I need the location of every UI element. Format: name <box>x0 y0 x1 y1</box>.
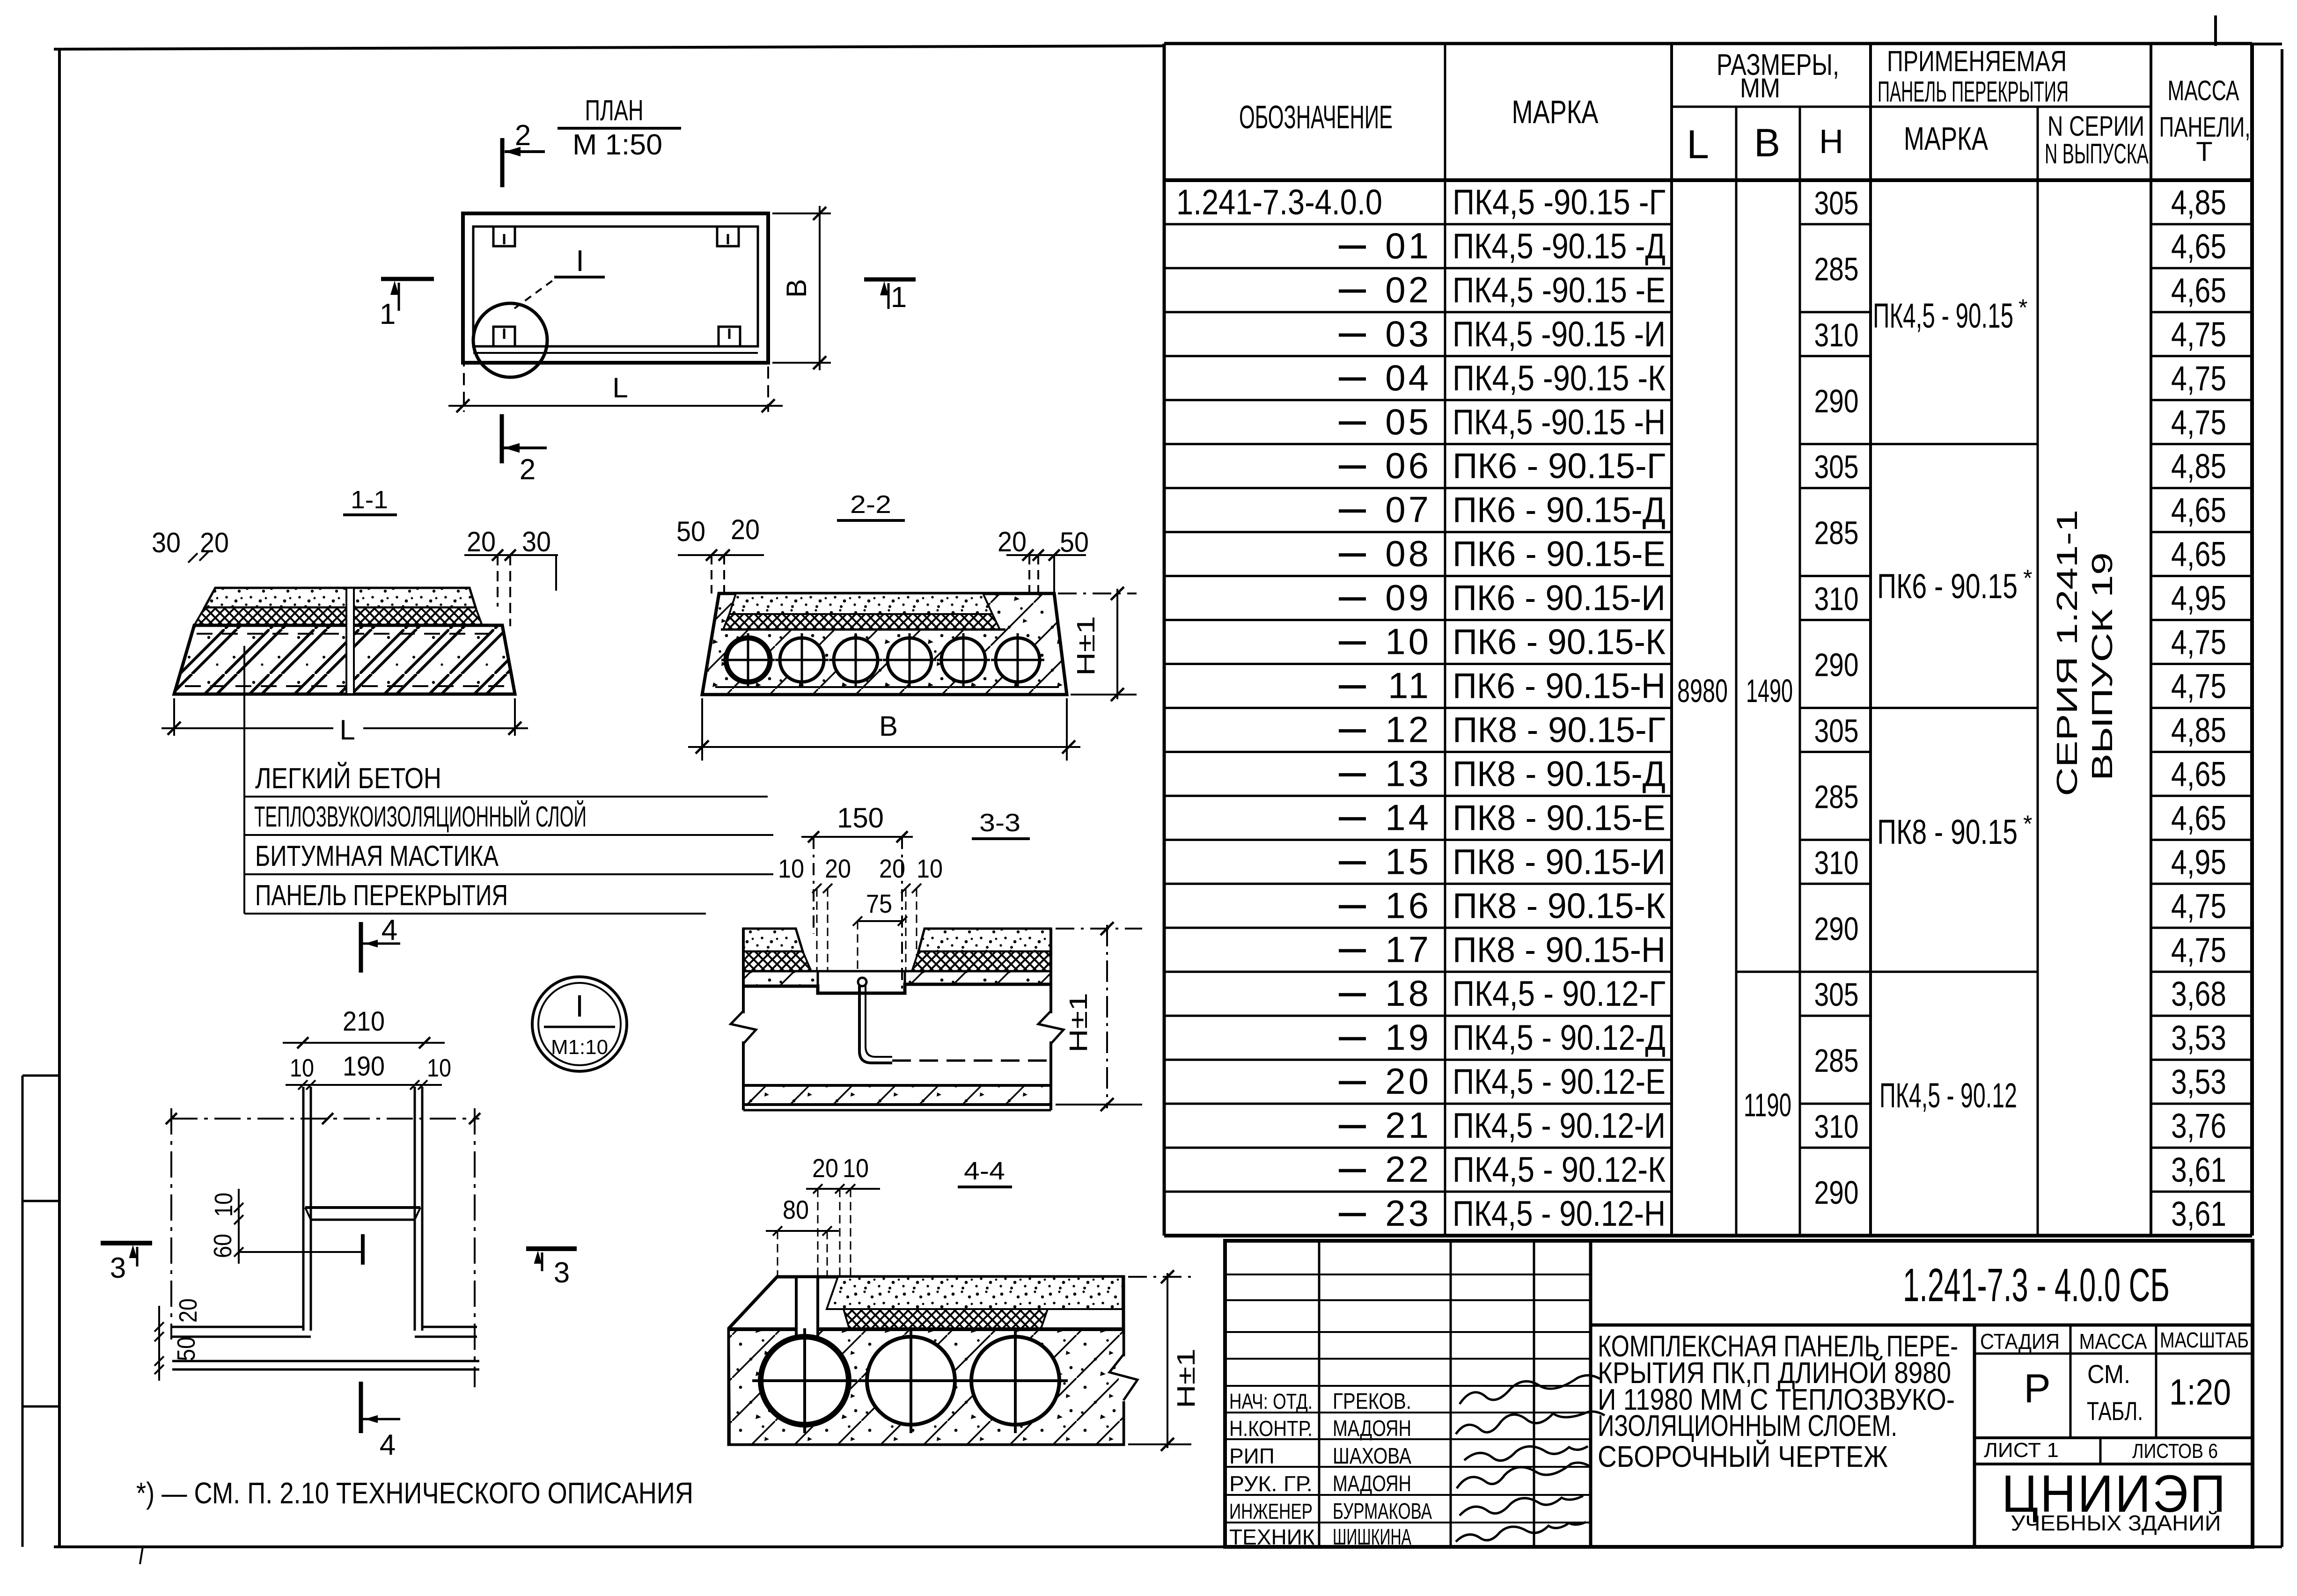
section 3-3 left edge with break <box>742 929 745 1110</box>
svg-text:ВЫПУСК 19: ВЫПУСК 19 <box>2086 552 2119 781</box>
svg-text:ТЕХНИК: ТЕХНИК <box>1229 1525 1315 1549</box>
section 3-3 panel top band right <box>905 971 1051 984</box>
plan notch top-right <box>717 227 739 246</box>
svg-text:19: 19 <box>1385 1017 1431 1058</box>
svg-text:ПК6 - 90.15: ПК6 - 90.15 <box>1877 567 2018 606</box>
svg-text:310: 310 <box>1814 581 1859 617</box>
svg-text:ПК4,5 -90.15 -К: ПК4,5 -90.15 -К <box>1453 359 1666 398</box>
svg-text:ПК4,5 - 90.12-Е: ПК4,5 - 90.12-Е <box>1453 1062 1666 1102</box>
svg-text:4,75: 4,75 <box>2171 403 2226 442</box>
plan section marker 2 bottom <box>500 414 504 463</box>
svg-text:3: 3 <box>554 1257 570 1289</box>
svg-text:01: 01 <box>1385 225 1431 266</box>
svg-text:ОБОЗНАЧЕНИЕ: ОБОЗНАЧЕНИЕ <box>1239 99 1393 135</box>
svg-text:310: 310 <box>1814 317 1859 353</box>
svg-text:10: 10 <box>427 1054 451 1082</box>
svg-text:310: 310 <box>1814 1108 1859 1145</box>
detail I section marker 3 left <box>101 1241 152 1245</box>
detail I panel edge upper double line <box>172 1326 303 1328</box>
detail I section marker 3 right <box>526 1246 577 1251</box>
svg-text:В: В <box>781 279 812 298</box>
svg-text:285: 285 <box>1814 778 1859 815</box>
detail I scale bubble <box>532 977 627 1071</box>
detail I dims 10 60 left stack <box>238 1189 240 1264</box>
svg-text:4,75: 4,75 <box>2171 315 2226 354</box>
svg-text:60: 60 <box>209 1234 237 1258</box>
svg-text:ПК4,5 -90.15 -Е: ПК4,5 -90.15 -Е <box>1453 271 1666 310</box>
table outer border and verticals <box>1164 42 2252 45</box>
title block stage rows <box>1974 1353 2253 1355</box>
svg-text:305: 305 <box>1814 976 1859 1013</box>
svg-text:4,65: 4,65 <box>2171 227 2226 266</box>
svg-text:3: 3 <box>110 1252 126 1284</box>
svg-text:12: 12 <box>1385 709 1431 750</box>
section 4-4 edge groove <box>797 1278 817 1338</box>
svg-text:4,95: 4,95 <box>2171 579 2226 618</box>
plan section marker 1 left <box>381 277 434 281</box>
svg-text:НАЧ: ОТД.: НАЧ: ОТД. <box>1229 1389 1313 1413</box>
section 3-3 left block stipple <box>743 929 803 952</box>
svg-text:285: 285 <box>1814 1042 1859 1079</box>
table H column merged cell lines <box>1800 223 1871 226</box>
svg-text:N СЕРИИ: N СЕРИИ <box>2047 110 2144 142</box>
svg-text:4,65: 4,65 <box>2171 754 2226 793</box>
svg-text:СТАДИЯ: СТАДИЯ <box>1980 1329 2060 1354</box>
svg-text:02: 02 <box>1385 269 1431 310</box>
svg-text:10: 10 <box>778 854 804 883</box>
signature table rows <box>1225 1274 1591 1275</box>
svg-text:190: 190 <box>343 1051 385 1082</box>
plan section marker 1 right <box>864 278 916 282</box>
detail I axis dash-dot lines <box>171 1118 479 1120</box>
svg-text:ПК8 - 90.15-Д: ПК8 - 90.15-Д <box>1453 754 1666 794</box>
svg-text:20: 20 <box>825 854 851 883</box>
svg-text:ПК8 - 90.15-К: ПК8 - 90.15-К <box>1453 886 1666 926</box>
svg-text:ИЗОЛЯЦИОННЫМ СЛОЕМ.: ИЗОЛЯЦИОННЫМ СЛОЕМ. <box>1598 1409 1897 1442</box>
section 4-4 panel top heavy line <box>729 1327 1123 1331</box>
svg-text:I: I <box>576 244 584 278</box>
plan section marker 2 top <box>500 138 505 187</box>
signature table columns <box>1318 1241 1321 1547</box>
svg-text:ПК4,5 - 90.12-И: ПК4,5 - 90.12-И <box>1453 1106 1666 1146</box>
svg-text:4,75: 4,75 <box>2171 886 2226 925</box>
svg-text:05: 05 <box>1385 401 1431 442</box>
section 4-4 H dimension <box>1128 1276 1191 1278</box>
svg-text:ПК4,5 -90.15 -Н: ПК4,5 -90.15 -Н <box>1453 403 1666 442</box>
section 4-4 concrete area <box>730 1330 1123 1443</box>
svg-text:20: 20 <box>1385 1061 1431 1102</box>
svg-text:20: 20 <box>467 526 496 557</box>
plan panel outer rectangle <box>463 213 768 363</box>
svg-text:МАДОЯН: МАДОЯН <box>1333 1472 1411 1496</box>
svg-text:БУРМАКОВА: БУРМАКОВА <box>1333 1499 1432 1524</box>
svg-text:ТЕПЛОЗВУКОИЗОЛЯЦИОННЫЙ СЛОЙ: ТЕПЛОЗВУКОИЗОЛЯЦИОННЫЙ СЛОЙ <box>254 800 587 833</box>
svg-text:ЛИСТ 1: ЛИСТ 1 <box>1984 1439 2059 1462</box>
svg-text:3-3: 3-3 <box>979 809 1020 837</box>
frame fold mark top right <box>2214 15 2217 46</box>
svg-text:1190: 1190 <box>1744 1087 1791 1123</box>
section 3-3 right block crosshatch <box>912 952 1051 971</box>
section 1-1 material legend leader <box>243 646 245 914</box>
svg-text:75: 75 <box>866 889 892 918</box>
section 3-3 left block crosshatch <box>743 952 811 971</box>
left margin blocks <box>22 1076 24 1547</box>
svg-text:ПК8 - 90.15-Е: ПК8 - 90.15-Е <box>1453 798 1666 838</box>
table row lines масса column <box>2151 223 2252 226</box>
svg-text:4,75: 4,75 <box>2171 623 2226 662</box>
svg-text:ШИШКИНА: ШИШКИНА <box>1333 1525 1411 1550</box>
section 2-2 crosshatch band <box>723 614 1000 630</box>
svg-text:18: 18 <box>1385 973 1431 1014</box>
section 3-3 joint recess outline <box>743 984 1051 993</box>
svg-text:РУК. ГР.: РУК. ГР. <box>1229 1472 1313 1496</box>
section 2-2 top stipple band <box>729 593 992 614</box>
section 4-4 right edge break <box>1119 1356 1128 1401</box>
svg-text:ПК6 - 90.15-Д: ПК6 - 90.15-Д <box>1453 491 1666 530</box>
svg-text:1-1: 1-1 <box>351 486 388 514</box>
svg-text:4,65: 4,65 <box>2171 535 2226 574</box>
section 1-1 dashed line inside slab bottom <box>185 685 509 687</box>
svg-text:07: 07 <box>1385 489 1431 530</box>
svg-text:*: * <box>2023 811 2032 837</box>
svg-text:210: 210 <box>343 1006 385 1037</box>
section 2-2 hollow core circles <box>726 638 770 682</box>
plan notch bottom-right <box>719 327 740 346</box>
section 4-4 stipple band <box>827 1277 1123 1309</box>
svg-text:ПАНЕЛЬ ПЕРЕКРЫТИЯ: ПАНЕЛЬ ПЕРЕКРЫТИЯ <box>255 879 508 912</box>
svg-text:ПК8 - 90.15: ПК8 - 90.15 <box>1877 813 2018 851</box>
svg-text:ПК6 - 90.15-Г: ПК6 - 90.15-Г <box>1453 447 1666 486</box>
detail I groove inner bar <box>305 1206 420 1209</box>
svg-text:М 1:50: М 1:50 <box>572 129 662 161</box>
svg-text:1.241-7.3-4.0.0: 1.241-7.3-4.0.0 <box>1176 183 1382 222</box>
svg-text:МАССА: МАССА <box>2168 75 2239 106</box>
section 3-3 panel top band left <box>743 971 818 986</box>
svg-text:20: 20 <box>879 854 905 883</box>
svg-text:L: L <box>1687 122 1709 167</box>
svg-text:Н±1: Н±1 <box>1172 1348 1200 1408</box>
detail I groove side lines right pair <box>414 1087 416 1331</box>
svg-text:4: 4 <box>382 914 397 946</box>
section 1-1 break lines <box>346 589 354 693</box>
svg-text:4,85: 4,85 <box>2171 183 2226 222</box>
svg-text:04: 04 <box>1385 357 1431 398</box>
svg-text:ММ: ММ <box>1740 73 1780 103</box>
title block outer border <box>1225 1241 2253 1547</box>
svg-text:80: 80 <box>783 1195 809 1224</box>
svg-text:СЕРИЯ 1.241-1: СЕРИЯ 1.241-1 <box>2051 510 2084 796</box>
section 3-3 bottom slab band <box>743 1085 1051 1105</box>
svg-text:МАДОЯН: МАДОЯН <box>1333 1416 1411 1441</box>
svg-text:СМ.: СМ. <box>2087 1359 2130 1389</box>
svg-text:ПК8 - 90.15-И: ПК8 - 90.15-И <box>1453 842 1666 882</box>
signatures scribbles <box>1460 1375 1600 1404</box>
svg-text:22: 22 <box>1385 1149 1431 1190</box>
svg-text:Н±1: Н±1 <box>1072 616 1100 676</box>
svg-text:1: 1 <box>891 281 907 314</box>
svg-text:Н: Н <box>1819 123 1843 161</box>
svg-text:10: 10 <box>843 1153 869 1183</box>
title block main dividers <box>1589 1241 1592 1547</box>
svg-text:М1:10: М1:10 <box>551 1036 608 1059</box>
svg-text:ПК4,5 - 90.15: ПК4,5 - 90.15 <box>1873 296 2013 335</box>
svg-text:ПК6 - 90.15-Е: ПК6 - 90.15-Е <box>1453 534 1666 574</box>
svg-text:1490: 1490 <box>1746 673 1793 709</box>
svg-text:3,61: 3,61 <box>2171 1150 2226 1189</box>
detail I section marker 4 top <box>359 922 363 973</box>
svg-text:I: I <box>575 988 584 1023</box>
svg-text:В: В <box>879 710 898 742</box>
svg-text:11: 11 <box>1388 665 1431 706</box>
svg-text:150: 150 <box>837 802 884 834</box>
svg-text:50: 50 <box>172 1337 200 1361</box>
section 3-3 H dimension <box>1056 928 1142 930</box>
svg-text:ПК4,5 - 90.12-К: ПК4,5 - 90.12-К <box>1453 1150 1666 1190</box>
section 3-3 right edge with break <box>1049 929 1052 1110</box>
svg-text:10: 10 <box>917 854 943 883</box>
svg-text:4-4: 4-4 <box>964 1157 1005 1185</box>
svg-text:ПК6 - 90.15-Н: ПК6 - 90.15-Н <box>1453 666 1666 706</box>
svg-text:21: 21 <box>1385 1105 1431 1146</box>
svg-text:09: 09 <box>1385 577 1431 618</box>
section 2-2 B dimension bottom <box>701 698 703 761</box>
svg-text:1: 1 <box>380 298 396 330</box>
svg-text:МАРКА: МАРКА <box>1512 94 1599 130</box>
section 3-3 bottom edge line <box>743 1109 1051 1112</box>
svg-text:УЧЕБНЫХ ЗДАНИЙ: УЧЕБНЫХ ЗДАНИЙ <box>2011 1511 2221 1535</box>
svg-text:23: 23 <box>1385 1193 1431 1234</box>
svg-text:285: 285 <box>1814 515 1859 551</box>
table row lines обозначение and марка columns <box>1164 223 1672 226</box>
svg-text:4,85: 4,85 <box>2171 447 2226 486</box>
svg-text:285: 285 <box>1814 251 1859 287</box>
svg-text:ПК6 - 90.15-И: ПК6 - 90.15-И <box>1453 578 1666 618</box>
frame fold mark bottom left <box>140 1547 143 1564</box>
svg-text:20: 20 <box>200 527 229 558</box>
section 4-4 panel body outline <box>729 1277 1123 1444</box>
svg-text:10: 10 <box>210 1193 238 1217</box>
svg-text:8980: 8980 <box>1677 673 1728 709</box>
svg-text:4,65: 4,65 <box>2171 798 2226 837</box>
section 1-1 top stipple band <box>205 588 476 608</box>
table group separator lines <box>1800 443 2038 445</box>
svg-text:*: * <box>2023 565 2032 591</box>
svg-text:290: 290 <box>1814 910 1859 947</box>
plan panel inner extra bottom line <box>473 352 758 354</box>
plan detail leader line <box>514 280 553 308</box>
svg-text:ПК4,5 - 90.12-Н: ПК4,5 - 90.12-Н <box>1453 1194 1666 1234</box>
svg-text:Р: Р <box>2024 1366 2050 1411</box>
svg-text:ЛЕГКИЙ БЕТОН: ЛЕГКИЙ БЕТОН <box>255 762 441 795</box>
section 4-4 hollow core circles <box>761 1337 849 1425</box>
svg-text:20: 20 <box>174 1298 202 1323</box>
section 2-2 H dimension right <box>1058 593 1137 594</box>
svg-text:ПК4,5 -90.15 -Г: ПК4,5 -90.15 -Г <box>1453 183 1666 222</box>
svg-text:ПК4,5 - 90.12-Д: ПК4,5 - 90.12-Д <box>1453 1018 1666 1058</box>
svg-text:L: L <box>339 714 355 746</box>
svg-text:290: 290 <box>1814 383 1859 419</box>
svg-text:20: 20 <box>812 1153 838 1183</box>
plan notch bottom-left <box>493 327 515 346</box>
svg-text:50: 50 <box>676 516 705 547</box>
section 3-3 anchor pin <box>859 986 892 1063</box>
svg-text:1.241-7.3 - 4.0.0 СБ: 1.241-7.3 - 4.0.0 СБ <box>1903 1259 2170 1311</box>
svg-text:ПАНЕЛЬ ПЕРЕКРЫТИЯ: ПАНЕЛЬ ПЕРЕКРЫТИЯ <box>1878 76 2069 108</box>
svg-text:13: 13 <box>1385 753 1431 794</box>
svg-text:ПК6 - 90.15-К: ПК6 - 90.15-К <box>1453 622 1666 662</box>
svg-text:В: В <box>1754 121 1780 165</box>
svg-text:ГРЕКОВ.: ГРЕКОВ. <box>1333 1389 1411 1414</box>
svg-text:МАСШТАБ: МАСШТАБ <box>2160 1328 2249 1352</box>
svg-text:ПК4,5 -90.15 -И: ПК4,5 -90.15 -И <box>1453 315 1666 354</box>
svg-text:4,65: 4,65 <box>2171 491 2226 530</box>
plan panel inner rectangle <box>473 227 758 346</box>
svg-text:20: 20 <box>731 514 760 545</box>
svg-text:ПРИМЕНЯЕМАЯ: ПРИМЕНЯЕМАЯ <box>1887 45 2067 78</box>
sheet frame border <box>54 46 1164 49</box>
section 1-1 dashed line inside slab top <box>197 633 499 635</box>
svg-text:ЛИСТОВ 6: ЛИСТОВ 6 <box>2132 1440 2218 1463</box>
section 3-3 right block stipple <box>918 929 1051 952</box>
svg-text:Н.КОНТР.: Н.КОНТР. <box>1229 1416 1313 1441</box>
detail I groove side lines left pair <box>302 1087 305 1331</box>
svg-text:50: 50 <box>1060 527 1089 558</box>
svg-text:08: 08 <box>1385 533 1431 574</box>
plan detail I circle callout <box>473 303 547 377</box>
svg-text:3,53: 3,53 <box>2171 1062 2226 1101</box>
svg-text:3,68: 3,68 <box>2171 974 2226 1013</box>
svg-text:10: 10 <box>290 1054 314 1082</box>
section 3-3 joint top line <box>811 970 912 973</box>
svg-text:МАССА: МАССА <box>2079 1329 2147 1354</box>
plan dimension L bottom <box>463 354 465 412</box>
svg-text:305: 305 <box>1814 185 1859 221</box>
svg-text:310: 310 <box>1814 844 1859 881</box>
svg-text:L: L <box>612 372 628 403</box>
svg-text:ПК8 - 90.15-Г: ПК8 - 90.15-Г <box>1453 710 1666 750</box>
svg-text:290: 290 <box>1814 1174 1859 1211</box>
svg-text:1:20: 1:20 <box>2169 1371 2231 1413</box>
svg-text:4,65: 4,65 <box>2171 271 2226 310</box>
svg-text:РИП: РИП <box>1229 1444 1275 1468</box>
svg-text:Н±1: Н±1 <box>1064 993 1093 1053</box>
svg-text:ПК4,5 -90.15 -Д: ПК4,5 -90.15 -Д <box>1453 227 1666 266</box>
svg-text:4,85: 4,85 <box>2171 711 2226 750</box>
svg-text:4,75: 4,75 <box>2171 667 2226 706</box>
svg-text:17: 17 <box>1385 929 1431 970</box>
section 2-2 bottom flange inner line <box>715 686 1059 688</box>
svg-text:*: * <box>2018 294 2027 321</box>
section 4-4 crosshatch band <box>844 1309 1048 1328</box>
section 3-3 anchor pin loop <box>858 978 866 986</box>
section 1-1 main slab diagonal hatch <box>174 625 515 694</box>
svg-text:ПК4,5 - 90.12-Г: ПК4,5 - 90.12-Г <box>1453 974 1666 1014</box>
svg-text:ПЛАН: ПЛАН <box>585 95 644 127</box>
plan notch top-left <box>493 227 515 246</box>
svg-text:2: 2 <box>515 119 531 152</box>
detail I dims 20 50 left bottom <box>158 1306 160 1381</box>
svg-text:10: 10 <box>1385 621 1431 662</box>
svg-text:ПК8 - 90.15-Н: ПК8 - 90.15-Н <box>1453 930 1666 970</box>
svg-text:20: 20 <box>998 526 1027 557</box>
svg-text:ПК4,5 - 90.12: ПК4,5 - 90.12 <box>1879 1076 2017 1115</box>
svg-text:ИНЖЕНЕР: ИНЖЕНЕР <box>1229 1499 1313 1523</box>
svg-text:16: 16 <box>1385 885 1431 926</box>
svg-text:06: 06 <box>1385 445 1431 486</box>
svg-text:305: 305 <box>1814 449 1859 485</box>
svg-text:30: 30 <box>522 526 551 557</box>
svg-text:МАРКА: МАРКА <box>1904 120 1988 157</box>
svg-text:ТАБЛ.: ТАБЛ. <box>2087 1396 2143 1426</box>
detail I panel edge lower double line <box>172 1360 479 1362</box>
svg-text:Т: Т <box>2196 137 2212 167</box>
section 1-1 dimension L <box>173 698 175 736</box>
svg-text:4,95: 4,95 <box>2171 842 2226 881</box>
svg-text:14: 14 <box>1385 797 1431 838</box>
svg-text:3,61: 3,61 <box>2171 1194 2226 1233</box>
svg-text:3,76: 3,76 <box>2171 1106 2226 1145</box>
svg-text:*) — СМ. П. 2.10 ТЕХНИЧЕСКОГО: *) — СМ. П. 2.10 ТЕХНИЧЕСКОГО ОПИСАНИЯ <box>136 1476 693 1510</box>
svg-text:2: 2 <box>520 454 536 486</box>
svg-text:30: 30 <box>152 527 181 558</box>
section 2-2 slab body concrete <box>702 593 1067 695</box>
svg-text:БИТУМНАЯ МАСТИКА: БИТУМНАЯ МАСТИКА <box>255 840 499 872</box>
svg-text:3,53: 3,53 <box>2171 1018 2226 1057</box>
svg-text:4,75: 4,75 <box>2171 930 2226 969</box>
svg-text:СБОРОЧНЫЙ ЧЕРТЕЖ: СБОРОЧНЫЙ ЧЕРТЕЖ <box>1598 1439 1888 1473</box>
detail I section marker 4 bottom <box>359 1382 363 1433</box>
svg-text:03: 03 <box>1385 313 1431 354</box>
svg-text:2-2: 2-2 <box>850 491 891 519</box>
plan dimension B right <box>772 212 831 214</box>
svg-text:15: 15 <box>1385 841 1431 882</box>
section 1-1 crosshatch band <box>194 608 482 625</box>
svg-text:290: 290 <box>1814 647 1859 683</box>
svg-text:ШАХОВА: ШАХОВА <box>1333 1444 1411 1469</box>
svg-text:4,75: 4,75 <box>2171 359 2226 398</box>
svg-text:N ВЫПУСКА: N ВЫПУСКА <box>2045 138 2149 169</box>
svg-text:305: 305 <box>1814 712 1859 749</box>
svg-text:4: 4 <box>380 1429 396 1461</box>
